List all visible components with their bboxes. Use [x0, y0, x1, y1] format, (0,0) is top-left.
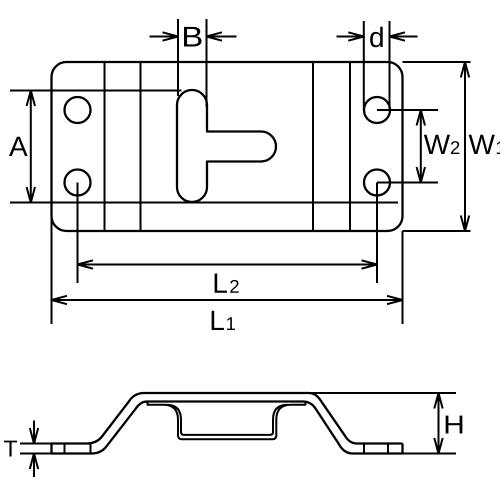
dim W1 arrow up	[461, 62, 469, 78]
dim W1 extension bottom	[403, 230, 471, 232]
dim L2 extension left	[77, 183, 79, 284]
dim B arrow right	[207, 36, 237, 38]
dim d arrow left	[337, 36, 364, 38]
bend line left 2	[140, 62, 142, 231]
dim L1 arrow right	[387, 296, 403, 304]
hole mark right b	[387, 444, 389, 454]
dim L1 extension left	[51, 216, 53, 324]
dim A arrow down	[27, 187, 35, 203]
dim d arrow right	[390, 36, 418, 38]
dim L1 line	[52, 299, 403, 301]
dim W1 extension top	[403, 61, 471, 63]
label A	[9, 137, 28, 156]
label B	[184, 27, 202, 47]
dim A line	[30, 91, 32, 203]
dim L1 extension right	[402, 231, 404, 324]
side view right end face	[401, 444, 403, 454]
dim A extension bottom	[10, 202, 398, 204]
hole mark left a	[64, 444, 66, 454]
dim L2 extension right	[376, 183, 378, 284]
dim A arrow up	[27, 91, 35, 107]
dim L2 arrow right	[362, 260, 378, 268]
dim H arrow down	[434, 438, 442, 454]
dim d extension left	[363, 21, 365, 110]
dim T extension bottom	[20, 453, 52, 455]
hole top-left	[65, 97, 91, 123]
dim W2 line	[420, 110, 422, 183]
dim H extension top	[309, 392, 456, 394]
label H	[446, 416, 463, 434]
bend line right 2	[349, 62, 351, 231]
hole top-right	[364, 97, 390, 123]
side view left end face	[50, 444, 52, 454]
hole bottom-right	[364, 170, 390, 196]
T-slot cutout	[177, 90, 276, 202]
label T	[4, 441, 17, 457]
dim L2 arrow left	[78, 260, 94, 268]
dim B extension right	[206, 19, 208, 107]
pressed tab outer line	[148, 402, 306, 440]
dim W2 arrow up	[417, 110, 425, 126]
side view inner profile	[52, 402, 403, 454]
dim H arrow up	[434, 393, 442, 409]
dim W2 arrow down	[417, 167, 425, 183]
hole mark left b	[90, 444, 92, 454]
dim T arrow bottom	[33, 454, 35, 478]
dim W1 arrow down	[461, 216, 469, 232]
plate outline (top view)	[52, 62, 403, 231]
label W2	[424, 135, 460, 154]
side view outer profile	[52, 393, 403, 444]
hole mark right a	[363, 444, 365, 454]
hole bottom-left	[65, 170, 91, 196]
label L1	[212, 311, 235, 330]
dim d extension right	[389, 21, 391, 110]
label d	[370, 27, 383, 48]
label W1	[469, 135, 500, 154]
dim T arrow top	[33, 421, 35, 444]
dim L1 arrow left	[52, 296, 68, 304]
label L2	[215, 274, 239, 293]
dim B arrow left	[150, 36, 179, 38]
bend line left 1	[104, 62, 106, 231]
dim B extension left	[177, 19, 179, 96]
pressed tab inner line	[167, 405, 288, 435]
dim W2 extension top	[377, 109, 438, 111]
dim H line	[438, 393, 440, 454]
dim W2 extension bottom	[377, 182, 438, 184]
dim W1 line	[464, 62, 466, 231]
dim T extension top	[20, 443, 52, 445]
dim L2 line	[78, 264, 378, 266]
dim A extension top	[10, 90, 182, 92]
bend line right 1	[312, 62, 314, 231]
dim H extension bottom	[403, 453, 457, 455]
